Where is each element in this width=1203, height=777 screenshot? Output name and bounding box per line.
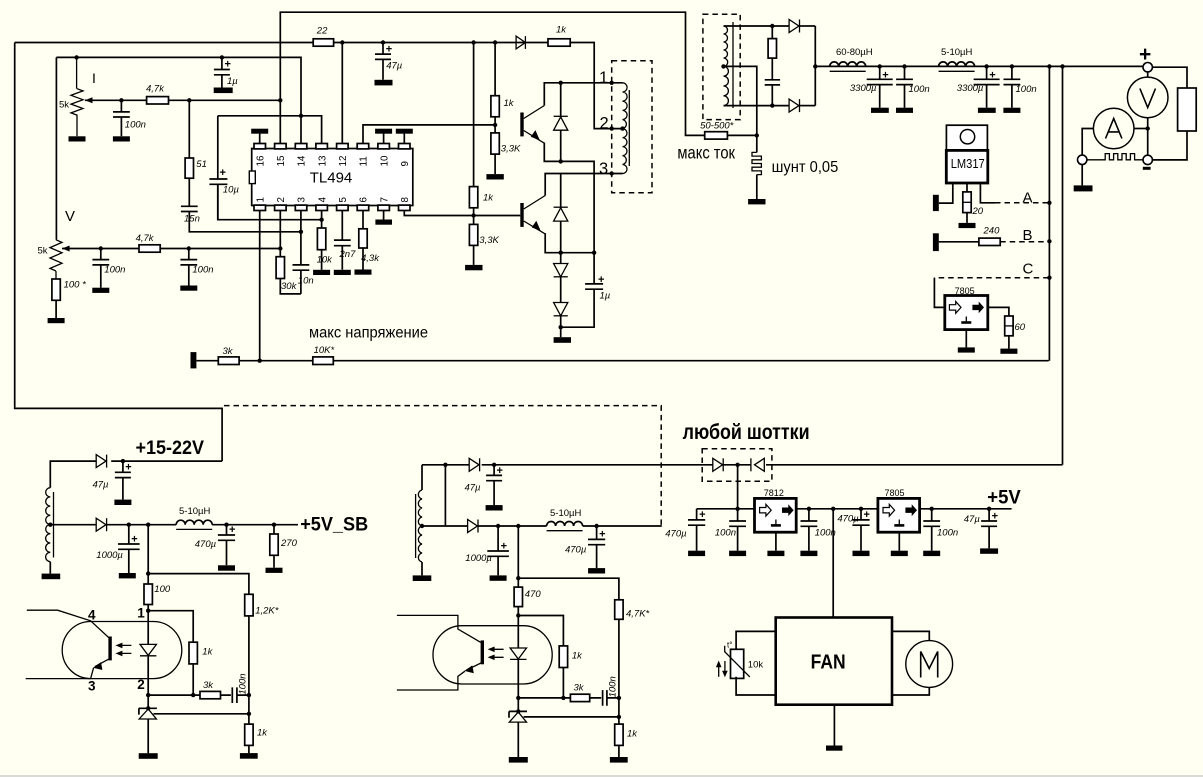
dashed wire C — [934, 277, 1048, 279]
transformer T1 drive dashed box — [612, 61, 652, 193]
svg-text:1: 1 — [255, 197, 266, 202]
resistor 22 — [313, 26, 333, 47]
wire fan supply drop — [832, 509, 834, 618]
svg-text:7: 7 — [379, 197, 390, 202]
wire Q2 collector rail y=173.5 to winding tap 3 — [545, 174, 622, 196]
meter shunt squiggle — [1086, 154, 1148, 160]
capacitor 3300u first — [850, 66, 893, 107]
svg-text:47µ: 47µ — [92, 480, 109, 491]
diode D4 series lower — [554, 303, 568, 338]
svg-text:100n: 100n — [909, 84, 930, 95]
resistor 100* — [52, 279, 86, 318]
transformer T1 winding — [623, 83, 630, 174]
FAN control box — [776, 618, 892, 705]
text minus output — [1143, 167, 1151, 170]
capacitor 1u on vref rail — [214, 57, 238, 87]
capacitor 100n comp2 horizontal — [590, 676, 619, 705]
svg-text:15n: 15n — [184, 214, 200, 225]
wire C down to 7805 input — [934, 278, 944, 308]
node dot standby2 tap — [420, 524, 424, 528]
ground under 47u output — [980, 548, 998, 553]
node dot pin12 on VCC rail — [340, 40, 344, 44]
wire rail between 7812 and 7805 — [796, 508, 878, 510]
resistor 51 — [185, 100, 207, 178]
wire pin 8 to driver Q2 base — [404, 211, 520, 216]
bottom scan edge strip — [0, 775, 1203, 777]
ground under Q2 3,3K — [465, 265, 482, 270]
svg-text:5-10µH: 5-10µH — [550, 508, 581, 519]
node dot 470u standby2 — [594, 524, 598, 528]
wire LM317 out pin to A line — [980, 183, 995, 203]
svg-text:B: B — [1023, 227, 1033, 244]
wire ammeter left to shunt terminal — [1082, 129, 1093, 156]
svg-text:5: 5 — [338, 197, 349, 203]
svg-text:100n: 100n — [125, 120, 146, 131]
wire LM317 adj pin to connector bar — [939, 183, 953, 203]
inductor 5-10uH output — [939, 47, 975, 71]
node dot 1u on vref rail — [220, 55, 224, 59]
node dot rectifier output — [813, 64, 817, 68]
ground under 7805 lower — [891, 551, 908, 556]
ground under TL431 — [139, 753, 158, 759]
capacitor 100n V row second — [180, 249, 213, 286]
ground bar above pin 10 — [375, 129, 392, 144]
schottky diodes dashed box — [702, 449, 772, 481]
svg-text:1k: 1k — [257, 728, 268, 739]
node dot D2 bottom — [559, 251, 563, 255]
svg-text:60-80µH: 60-80µH — [836, 47, 873, 58]
ground under 1000u standby — [119, 573, 136, 578]
opto2 phototransistor collector wire — [397, 615, 481, 642]
svg-text:15: 15 — [276, 155, 287, 166]
svg-text:6: 6 — [359, 197, 370, 203]
ammeter A — [1093, 108, 1147, 149]
ground under 1k lower — [240, 753, 258, 759]
transformer standby2 winding — [416, 465, 422, 576]
capacitor 470u mid — [837, 509, 870, 551]
node dot comp to 1,2K column — [247, 693, 251, 697]
svg-text:+: + — [220, 167, 226, 179]
svg-text:16: 16 — [255, 155, 266, 166]
node dot Q1 pullup on VCC rail — [493, 40, 497, 44]
rectifier diode top — [789, 20, 815, 33]
capacitor 470u standby2 — [565, 526, 606, 568]
opto2 phototransistor base bar — [481, 640, 484, 664]
svg-text:+: + — [864, 509, 870, 521]
node dot Q2 base — [471, 213, 475, 217]
resistor 100 — [144, 584, 171, 611]
shunt 0,05 symbol — [752, 135, 761, 199]
svg-text:60: 60 — [1015, 322, 1026, 333]
node dot tap1 on dashed boundary — [610, 81, 614, 85]
wire 10uF bottom wire y=219.7 to pin 4 — [218, 184, 322, 220]
resistor 30k — [276, 249, 297, 293]
node dot shunt top — [755, 133, 759, 137]
node dot emitter rail x=594.1 — [592, 251, 596, 255]
svg-text:t°: t° — [727, 641, 732, 650]
wire fan to motor bottom — [892, 687, 929, 695]
resistor 3k — [218, 346, 239, 365]
dashed wire B — [1000, 241, 1048, 243]
svg-text:+: + — [229, 524, 235, 536]
svg-text:макс ток: макс ток — [677, 142, 735, 162]
svg-text:+5V_SB: +5V_SB — [300, 513, 368, 535]
ground under 3300u first — [871, 108, 889, 113]
output plus terminal — [1143, 62, 1152, 71]
node dot 4,7K branch — [516, 576, 520, 580]
wire 5V rail right part — [920, 508, 1012, 510]
rectifier diode bottom — [789, 99, 815, 112]
ground under 470u input — [688, 551, 705, 556]
wire LED node to 1k pullup — [148, 611, 193, 643]
ground under fan box — [826, 746, 842, 751]
wire 10uF top wire y=115.8 to pin 13 — [218, 116, 322, 144]
node dot pin2 on V rail — [278, 246, 282, 250]
ground under 47u standby — [114, 500, 131, 505]
svg-text:1: 1 — [599, 69, 608, 87]
svg-text:+: + — [131, 534, 137, 546]
svg-text:3,3K: 3,3K — [479, 235, 499, 246]
voltmeter V — [1127, 71, 1168, 117]
resistor 240 — [979, 226, 1000, 246]
svg-text:4,7K*: 4,7K* — [626, 609, 650, 620]
regulator 7805 upper — [945, 286, 988, 330]
svg-text:47µ: 47µ — [964, 514, 981, 525]
wire load bottom to minus terminal — [1152, 131, 1187, 160]
node dot schottky centre — [735, 463, 739, 467]
ground under 100* — [48, 318, 65, 323]
svg-text:+: + — [225, 59, 231, 71]
diode D1 across Q1 — [554, 83, 568, 162]
wire shunt terminal to ground — [1081, 164, 1083, 185]
svg-text:100n: 100n — [608, 676, 619, 697]
wire +15-22V row y=461.1 — [111, 460, 222, 462]
svg-text:+: + — [699, 509, 705, 521]
opto2 phototransistor emitter wire — [397, 663, 482, 691]
node dot 470u standby — [224, 523, 228, 527]
wire pin 11 to driver Q1 base node — [363, 125, 495, 144]
wire VCC rail right part to drive transformer tap 2 — [570, 43, 622, 129]
svg-text:2n7: 2n7 — [339, 249, 357, 260]
ground bar above pin 16 — [251, 129, 268, 144]
capacitor 47u output 5V — [964, 509, 998, 549]
svg-text:9: 9 — [400, 161, 411, 166]
svg-text:+5V: +5V — [987, 488, 1021, 509]
wire plus output down to schottky line — [1062, 66, 1064, 464]
wire 470 drop column — [517, 526, 519, 587]
svg-text:3k: 3k — [203, 680, 214, 691]
inductor 5-10uH standby — [176, 506, 212, 529]
node dot 47u output — [987, 507, 991, 511]
ground under 10k — [313, 270, 330, 275]
svg-text:20: 20 — [972, 206, 984, 217]
svg-text:470µ: 470µ — [195, 539, 217, 550]
svg-text:+: + — [386, 44, 392, 56]
wire comp2 row y=697.9 — [518, 697, 570, 699]
wire plus terminal to load — [1152, 67, 1187, 88]
svg-text:4,7k: 4,7k — [146, 83, 165, 94]
ground under diode chain — [554, 337, 571, 343]
wire vref rail y=57.4 to pin 14 — [56, 57, 301, 143]
wire Q2 emitter rail y=252.7 — [545, 233, 594, 253]
ground under 2n7 — [334, 270, 351, 275]
resistor 3k comp2 — [570, 683, 589, 702]
svg-text:1000µ: 1000µ — [465, 553, 492, 564]
svg-text:+: + — [598, 274, 604, 286]
potentiometer V 5k — [38, 208, 76, 279]
svg-text:LM317: LM317 — [951, 156, 985, 171]
shunt left terminal — [1078, 155, 1087, 164]
svg-text:4: 4 — [317, 197, 328, 203]
wire left border from +15-22V up to VCC rail — [15, 43, 222, 462]
transformer T2 dashed box — [703, 14, 740, 119]
node dot 51 column on I rail — [187, 98, 191, 102]
resistor 1,2K* — [245, 594, 279, 724]
node dot LED top — [146, 609, 150, 613]
capacitor 100n V row first — [92, 249, 125, 288]
node dot snubber bottom — [770, 103, 774, 107]
resistor 10K* — [313, 345, 335, 364]
svg-text:1k: 1k — [504, 98, 515, 109]
svg-text:3: 3 — [297, 197, 308, 203]
ground under Q1 3,3K — [486, 174, 503, 179]
resistor 3,3K Q1 base — [491, 125, 521, 174]
svg-text:TL494: TL494 — [310, 170, 353, 187]
resistor 3,3K Q2 base — [469, 216, 499, 265]
ground under 47u — [375, 80, 393, 86]
node dot pot I top on vref rail — [74, 55, 78, 59]
svg-text:47µ: 47µ — [386, 61, 403, 72]
resistor 3k comp — [200, 680, 221, 699]
capacitor 47u standby — [92, 461, 131, 500]
wire max voltage line y=360.7 — [196, 360, 1048, 362]
svg-text:шунт 0,05: шунт 0,05 — [772, 159, 839, 176]
svg-text:1,2K*: 1,2K* — [255, 606, 279, 617]
resistor 50-500* — [700, 121, 734, 139]
svg-text:10k: 10k — [748, 659, 764, 670]
svg-text:+: + — [989, 70, 995, 82]
load resistor — [1178, 88, 1197, 131]
wire rectifier output vertical — [814, 26, 816, 106]
resistor 4,7k I row — [146, 83, 169, 104]
transistor Q2 — [520, 196, 545, 234]
minus terminal — [1143, 155, 1152, 164]
resistor 4,7K* — [615, 600, 650, 724]
resistor 1k to drive transformer tap 2 — [548, 25, 570, 47]
wire schottky rail segment mid — [482, 464, 713, 466]
node dot pin14 column on 10u wire — [299, 114, 303, 118]
transformer standby winding — [46, 488, 54, 574]
svg-text:3k: 3k — [223, 346, 234, 357]
capacitor 15n — [181, 178, 200, 224]
capacitor 10u — [209, 116, 239, 220]
svg-text:100n: 100n — [238, 673, 249, 694]
svg-text:100n: 100n — [1016, 84, 1037, 95]
svg-text:51: 51 — [196, 159, 207, 170]
ground under 20 — [959, 223, 976, 228]
opto2 light arrows — [488, 647, 504, 661]
node dot 470u mid — [859, 507, 863, 511]
svg-text:470µ: 470µ — [565, 545, 587, 556]
node dot 270 — [272, 523, 276, 527]
ground under 100n input — [729, 551, 746, 556]
wire pin 12 to VCC rail — [341, 43, 343, 144]
svg-text:1: 1 — [137, 606, 145, 621]
wire 50-500 to shunt junction — [727, 134, 756, 136]
svg-text:100n: 100n — [937, 528, 958, 539]
wire standby tap row y=524.7 — [50, 524, 96, 526]
wire 12V rail left part — [697, 508, 755, 510]
svg-text:7805: 7805 — [885, 488, 905, 498]
node dot tap3 on dashed boundary — [610, 171, 614, 175]
ground under 100n V2 — [180, 286, 197, 291]
svg-text:470µ: 470µ — [665, 529, 687, 540]
svg-text:C: C — [1023, 261, 1034, 278]
svg-text:47µ: 47µ — [464, 483, 481, 494]
wire thermistor bottom — [736, 677, 776, 695]
wire fan to motor top — [892, 631, 929, 640]
wire VCC rail y=42.5 — [15, 42, 548, 44]
opto2 LED — [510, 616, 526, 712]
ground under meters — [1074, 185, 1093, 191]
ground under 1u — [214, 88, 233, 94]
node dot 100n filter first — [902, 64, 906, 68]
capacitor 47u on VCC rail — [375, 43, 403, 80]
wire feedback sense vertical to ABC line — [1048, 66, 1050, 360]
svg-text:12: 12 — [338, 156, 349, 167]
wire T2 top lead to rectifier diode — [724, 25, 790, 27]
wire TL431 2 ref — [524, 716, 619, 718]
svg-text:1k: 1k — [202, 647, 213, 658]
opto light arrows — [115, 643, 131, 657]
svg-text:10µ: 10µ — [223, 185, 240, 196]
node dot Q2 pullup on VCC rail — [471, 40, 475, 44]
opto phototransistor emitter wire pin 3 — [26, 659, 110, 679]
node dot schottky rail drop — [735, 507, 739, 511]
ground under 47u standby2 — [486, 505, 503, 510]
ground under 4,3k — [355, 270, 372, 275]
ground under 470u standby — [218, 565, 235, 570]
node dot D1 bottom — [559, 159, 563, 163]
resistor 10k pin 4 — [317, 211, 334, 270]
capacitor 470u input — [665, 509, 705, 551]
node dot 1,2K branch — [146, 571, 150, 575]
svg-text:240: 240 — [983, 226, 1001, 237]
wire V-pot wiper rail y=248.5 to pin 2 — [62, 248, 280, 250]
node dot standby centre tap — [48, 523, 52, 527]
inductor 60-80uH — [830, 47, 873, 71]
svg-text:1µ: 1µ — [227, 76, 238, 87]
ground bar under pin 7 — [375, 211, 392, 225]
wire comp row y=695.1 — [148, 694, 200, 696]
connector bar LM317 — [933, 195, 939, 211]
transistor Q1 — [520, 106, 544, 144]
svg-text:I: I — [92, 70, 96, 86]
svg-text:10: 10 — [379, 155, 390, 166]
svg-text:1k: 1k — [572, 651, 583, 662]
node dot ref on 1,2K column — [247, 712, 251, 716]
svg-text:470µ: 470µ — [837, 514, 859, 525]
regulator 7812 — [755, 488, 797, 532]
node dot T1 centre tap — [620, 126, 624, 130]
svg-text:4,7k: 4,7k — [136, 233, 155, 244]
node dot 1000u standby2 — [496, 524, 500, 528]
wire 51+15n to pin 3 y=231.8 — [189, 212, 301, 232]
ground under 100n after 7812 — [800, 551, 817, 556]
node dot ref2 on 4,7K column — [617, 715, 621, 719]
node dot LED2 top — [516, 613, 520, 617]
svg-text:+15-22V: +15-22V — [136, 437, 205, 459]
wire T2 bottom lead to rectifier diode — [724, 105, 790, 107]
node dot diode chain bottom — [559, 325, 563, 329]
svg-text:3300µ: 3300µ — [957, 83, 984, 94]
resistor 1k lower right 2 — [615, 724, 639, 757]
node dot snubber top — [770, 24, 774, 28]
node dot pin15 on I rail — [278, 98, 282, 102]
svg-text:+: + — [882, 70, 888, 82]
ground under 100n I — [113, 136, 130, 141]
node dot 100n after 7812 — [807, 507, 811, 511]
schottky diode left — [713, 458, 723, 471]
wire pin 2 vertical — [279, 211, 281, 249]
connector bar left of max voltage line — [191, 352, 197, 368]
TL431 shunt regulator — [139, 706, 157, 753]
TL431 shunt regulator 2 — [509, 709, 527, 757]
node dot pin4 on 10u wire — [319, 218, 323, 222]
wire drop from schottky rail to tap row — [444, 465, 446, 526]
svg-text:30k: 30k — [281, 281, 298, 292]
dashed boundary main board — [224, 406, 661, 527]
diode standby top — [50, 455, 106, 488]
capacitor 100n filter second — [1004, 66, 1037, 107]
node dot feedback drop standby — [146, 523, 150, 527]
resistor 1k Q1 pullup — [491, 43, 515, 125]
svg-text:7805: 7805 — [955, 286, 975, 296]
node dot 100n V1 — [99, 246, 103, 250]
resistor 270 — [270, 525, 298, 568]
capacitor 10n — [280, 232, 313, 294]
svg-text:любой шоттки: любой шоттки — [683, 421, 810, 444]
svg-text:13: 13 — [317, 155, 328, 166]
wire schottky centre down to 12V rail — [737, 465, 739, 521]
wire Q1 collector to winding tap 1 rail — [544, 83, 622, 106]
ground under 60 — [1000, 349, 1017, 354]
svg-text:макс напряжение: макс напряжение — [309, 325, 428, 342]
regulator 7805 lower — [878, 488, 920, 532]
ground under TL431 2 — [509, 757, 528, 763]
wire voltmeter to minus terminal — [1147, 118, 1149, 156]
svg-text:10k: 10k — [317, 255, 334, 266]
motor M — [906, 641, 953, 688]
diode D2 across Q2 — [554, 174, 568, 253]
wire fan box bottom to ground — [833, 705, 835, 746]
svg-text:V: V — [65, 208, 75, 225]
node dot T2 centre tap — [721, 64, 725, 68]
wire between schottky diodes — [723, 464, 751, 466]
node dot 47u standby2 — [492, 463, 496, 467]
wire to 1,2K* resistor — [148, 574, 249, 595]
wire standby2 rail to dashed corner — [583, 525, 662, 527]
capacitor 470u standby — [195, 524, 236, 565]
node dot ammeter branch — [1146, 126, 1150, 130]
transformer T2 secondary winding — [724, 22, 734, 108]
ground bar above pin 9 — [396, 129, 413, 144]
regulator LM317 — [946, 125, 988, 183]
thermistor variability arrows — [716, 661, 728, 678]
svg-text:2: 2 — [276, 197, 287, 202]
capacitor 100n on I rail — [113, 100, 146, 136]
wire standby output rail — [212, 524, 298, 526]
